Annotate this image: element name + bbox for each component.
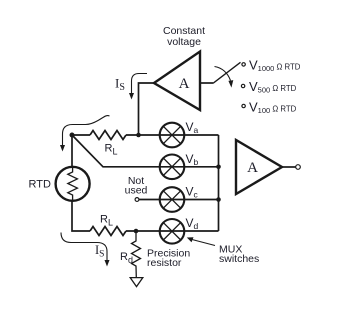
MUX switch b — [160, 155, 185, 180]
wire U1 input from apex down to row a — [139, 83, 155, 135]
resistor RL (top) — [90, 131, 126, 140]
resistor RL (bottom) — [90, 227, 126, 236]
wire U1 output — [200, 82, 213, 84]
svg-text:RTD: RTD — [29, 179, 51, 191]
wire diagonal row b from RTD node — [72, 135, 219, 167]
svg-text:switches: switches — [219, 253, 259, 265]
op-amp U2 (output amplifier A) — [236, 140, 282, 194]
svg-text:voltage: voltage — [167, 36, 201, 48]
switch wiper arm — [213, 62, 241, 83]
wire U2 output — [282, 166, 296, 168]
MUX switch c — [160, 187, 185, 212]
svg-text:A: A — [247, 160, 258, 176]
op-amp U1 (constant voltage amplifier A) — [154, 52, 200, 111]
svg-text:used: used — [125, 185, 148, 197]
MUX switch d — [160, 219, 185, 244]
pointer arrow MUX switches — [187, 237, 215, 245]
wire row a to bus — [126, 134, 219, 136]
label Constant voltage — [163, 25, 205, 48]
current hook arrow IS (bottom) — [61, 233, 110, 267]
output terminal — [296, 165, 301, 170]
wire row c from NC contact — [139, 199, 219, 201]
RTD (resistance temperature detector) — [56, 166, 90, 202]
node bus row c — [216, 197, 221, 202]
resistor Rd (precision) — [132, 231, 141, 278]
switch motion arc arrow — [215, 67, 234, 88]
node bus row b — [216, 165, 221, 170]
svg-text:resistor: resistor — [147, 257, 182, 269]
current arrow IS (top) — [129, 74, 147, 100]
svg-text:A: A — [179, 76, 190, 92]
node at U1 input junction — [136, 133, 141, 138]
MUX switch a — [160, 123, 185, 148]
contact V500 terminal — [241, 84, 244, 87]
wire row d to bus — [126, 230, 219, 232]
wire bus vertical — [218, 135, 220, 231]
ground — [130, 278, 143, 287]
current hook arrow (top left) — [60, 116, 110, 152]
wire row a left segment — [72, 134, 90, 136]
contact V100 terminal — [242, 104, 245, 107]
node at RTD top — [70, 133, 75, 138]
wire RTD bottom lead and bottom row — [72, 201, 90, 231]
contact V1000 terminal — [242, 63, 245, 66]
node at Rd junction — [134, 229, 139, 234]
NC open terminal — [135, 198, 139, 202]
wire RTD top lead — [71, 135, 73, 167]
